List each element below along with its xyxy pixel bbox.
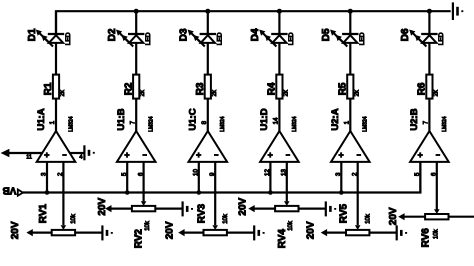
pin 6 label — [137, 172, 144, 176]
wire + input pin 3 of U2:A — [340, 162, 342, 193]
svg-text:3: 3 — [41, 172, 48, 176]
label U1:A — [36, 108, 47, 130]
pin 4 label — [79, 155, 82, 161]
power terminal 20V arrow for RV6 — [398, 213, 404, 220]
wire 20V terminal to RV2 — [111, 208, 132, 210]
node bottom bus junction pin 12 — [268, 190, 273, 195]
svg-text:1: 1 — [49, 120, 56, 124]
label 2k value of R3 — [212, 89, 218, 96]
label D4 — [250, 28, 261, 41]
svg-text:9: 9 — [209, 172, 216, 176]
node top bus junction col 3 — [205, 9, 210, 14]
pin 3 label — [41, 172, 48, 176]
battery at U1:A pin 4 — [84, 145, 94, 160]
label 2k value of R5 — [354, 89, 360, 96]
wire 20V terminal to RV4 — [254, 208, 275, 210]
svg-text:LM324: LM324 — [149, 116, 155, 132]
wire D4 to R4 — [278, 43, 280, 75]
label LM324 value of U1:B — [149, 116, 155, 132]
wire RV5 to battery — [369, 232, 396, 234]
wire U1:A V+ pin 4 — [70, 152, 84, 154]
label 2k value of R1 — [60, 89, 66, 96]
node bottom bus junction pin 5 — [125, 190, 130, 195]
label LED value of D2 — [145, 32, 152, 45]
svg-text:LED: LED — [145, 32, 152, 45]
svg-text:13: 13 — [281, 169, 288, 176]
label R1 — [43, 82, 54, 95]
svg-text:LED: LED — [359, 32, 366, 45]
LED D1 — [36, 30, 64, 47]
node bottom bus junction pin 3 — [339, 190, 344, 195]
wire RV3 to battery — [227, 232, 254, 234]
wire R4 to U1:D output — [278, 99, 280, 131]
svg-text:LED: LED — [438, 32, 445, 45]
svg-text:20V: 20V — [237, 197, 248, 215]
label LED value of D5 — [359, 32, 366, 45]
battery at RV3 — [254, 225, 264, 240]
input terminal BV — [2, 185, 23, 196]
label 20V for RV3 — [164, 221, 175, 239]
svg-text:U1:D: U1:D — [259, 108, 270, 130]
power arrow terminal at pin 11 — [1, 149, 10, 158]
label LM324 value of U1:C — [220, 116, 226, 132]
battery BT1 top right — [453, 2, 463, 20]
svg-text:RV1: RV1 — [38, 203, 49, 223]
label D6 — [400, 28, 411, 41]
pin 6 label — [431, 172, 438, 176]
label 10k value of RV4 — [288, 220, 294, 231]
svg-text:10: 10 — [192, 169, 199, 176]
node top bus junction col 6 — [427, 9, 432, 14]
label 10k value of RV1 — [71, 213, 77, 224]
label 10k value of RV2 — [145, 220, 151, 231]
pin 1 output of U2:A — [344, 120, 351, 124]
svg-text:20V: 20V — [10, 221, 21, 239]
resistor R6 2k — [426, 75, 432, 99]
pin 7 output of U1:B — [129, 120, 136, 124]
battery at RV1 — [102, 225, 112, 240]
label U1:C — [188, 108, 199, 130]
wire + input pin 5 of U1:B — [126, 162, 128, 193]
svg-text:R6: R6 — [417, 82, 428, 95]
battery at RV4 — [326, 201, 336, 216]
wire R1 to U1:A output — [55, 99, 57, 131]
label 10k value of RV5 — [365, 213, 371, 224]
label R2 — [123, 82, 134, 95]
svg-text:8: 8 — [201, 120, 208, 124]
label RV1 — [38, 203, 49, 223]
wire R6 to U2:B output — [428, 99, 430, 131]
svg-text:R2: R2 — [123, 82, 134, 95]
svg-text:6: 6 — [431, 172, 438, 176]
label 20V for RV4 — [237, 197, 248, 215]
svg-text:2: 2 — [57, 172, 64, 176]
wire bus to D5 — [349, 11, 351, 34]
wire bus to D4 — [278, 11, 280, 34]
svg-text:U2:B: U2:B — [409, 108, 420, 130]
potentiometer RV4 10k — [275, 201, 298, 211]
wire + input pin 3 of U1:A — [46, 162, 48, 193]
svg-text:10k: 10k — [433, 228, 439, 239]
label LM324 value of U1:A — [68, 116, 74, 132]
LED D4 — [259, 30, 287, 47]
node bottom bus junction pin 10 — [197, 190, 202, 195]
LED D3 — [188, 30, 216, 47]
wire top supply bus — [56, 11, 451, 33]
pin 1 output of U1:A — [49, 120, 56, 124]
node bottom bus junction pin 3 — [45, 190, 50, 195]
wire 20V terminal to RV5 — [326, 232, 346, 234]
wire U1:A V- pin 11 — [9, 152, 42, 154]
svg-text:2k: 2k — [433, 89, 439, 96]
LED D2 — [116, 30, 144, 47]
node top bus junction col 5 — [348, 9, 353, 14]
svg-text:3: 3 — [335, 172, 342, 176]
label 20V for RV1 — [10, 221, 21, 239]
pin 10 label — [192, 169, 199, 176]
svg-text:10k: 10k — [145, 220, 151, 231]
label LED value of D3 — [217, 32, 224, 45]
resistor R2 2k — [133, 75, 139, 99]
wire R3 to U1:C output — [207, 99, 209, 131]
svg-text:LED: LED — [217, 32, 224, 45]
label D1 — [27, 28, 38, 41]
label R6 — [417, 82, 428, 95]
svg-text:D1: D1 — [27, 28, 38, 41]
resistor R3 2k — [205, 75, 211, 99]
wire D5 to R5 — [349, 43, 351, 75]
svg-text:4: 4 — [79, 155, 82, 161]
svg-text:LED: LED — [65, 32, 72, 45]
potentiometer RV1 10k — [52, 225, 75, 235]
wire RV4 to battery — [299, 208, 326, 210]
label U1:B — [116, 108, 127, 130]
wire + input pin 10 of U1:C — [198, 162, 200, 193]
svg-text:1: 1 — [344, 120, 351, 124]
node top bus junction col 2 — [134, 9, 139, 14]
label 2k value of R4 — [283, 89, 289, 96]
svg-text:VB: VB — [2, 185, 16, 196]
pin 11 label — [26, 155, 32, 161]
label LED value of D6 — [438, 32, 445, 45]
svg-text:R1: R1 — [43, 82, 54, 95]
battery at RV2 — [183, 201, 193, 216]
label LM324 value of U1:D — [292, 116, 298, 132]
pin 12 label — [264, 169, 271, 176]
pin 8 output of U1:C — [201, 120, 208, 124]
pin 3 label — [335, 172, 342, 176]
label 2k value of R2 — [140, 89, 146, 96]
wire + input pin 12 of U1:D — [269, 162, 271, 193]
wire 20V terminal to RV3 — [184, 232, 204, 234]
label RV3 — [197, 203, 208, 223]
svg-text:D2: D2 — [107, 28, 118, 41]
op-amp U1:B LM324 — [117, 131, 156, 162]
label RV6 — [421, 228, 432, 248]
pin 2 label — [352, 172, 359, 176]
label RV4 — [277, 229, 288, 249]
pin 7 output of U2:B — [423, 120, 430, 124]
label RV2 — [134, 229, 145, 249]
svg-text:10k: 10k — [223, 213, 229, 224]
label 20V for RV6 — [388, 207, 399, 225]
label R3 — [195, 82, 206, 95]
label D5 — [321, 28, 332, 41]
svg-text:6: 6 — [137, 172, 144, 176]
LED D5 — [330, 30, 358, 47]
pin 5 label — [121, 172, 128, 176]
wire RV1 to battery — [75, 232, 102, 234]
svg-text:7: 7 — [129, 120, 136, 124]
label D2 — [107, 28, 118, 41]
svg-text:D3: D3 — [179, 28, 190, 41]
svg-text:U1:C: U1:C — [188, 108, 199, 130]
node top bus junction col 4 — [277, 9, 282, 14]
pin 9 label — [209, 172, 216, 176]
wire bus to D1 — [55, 11, 57, 34]
svg-text:RV2: RV2 — [134, 229, 145, 249]
label LED value of D4 — [288, 32, 295, 45]
svg-text:R3: R3 — [195, 82, 206, 95]
op-amp U1:C LM324 — [189, 131, 228, 162]
op-amp U1:A LM324 — [37, 131, 76, 162]
pin 2 label — [57, 172, 64, 176]
label D3 — [179, 28, 190, 41]
potentiometer RV5 10k — [346, 225, 369, 235]
label LED value of D1 — [65, 32, 72, 45]
wire D1 to R1 — [55, 43, 57, 75]
power terminal 20V arrow for RV2 — [105, 205, 111, 212]
wire - input pin 2 of U2:A to RV5 wiper — [357, 162, 359, 225]
wire bus to D3 — [207, 11, 209, 34]
power terminal 20V arrow for RV3 — [178, 229, 184, 236]
pin 13 label — [281, 169, 288, 176]
resistor R4 2k — [276, 75, 282, 99]
svg-text:2k: 2k — [283, 89, 289, 96]
svg-text:D4: D4 — [250, 28, 261, 41]
svg-text:10k: 10k — [365, 213, 371, 224]
svg-text:5: 5 — [121, 172, 128, 176]
label LM324 value of U2:B — [442, 116, 448, 132]
power terminal 20V arrow for RV1 — [26, 229, 32, 236]
potentiometer RV6 10k — [425, 209, 448, 219]
svg-text:20V: 20V — [164, 221, 175, 239]
pin 14 output of U1:D — [273, 117, 280, 124]
wire - input pin 6 of U1:B to RV2 wiper — [143, 162, 145, 202]
label 20V for RV2 — [97, 197, 108, 215]
power terminal 20V arrow for RV4 — [248, 205, 254, 212]
wire RV2 to battery — [155, 208, 182, 210]
wire 20V terminal to RV1 — [32, 232, 52, 234]
svg-text:U1:B: U1:B — [116, 108, 127, 130]
svg-text:2k: 2k — [60, 89, 66, 96]
pin 5 label — [414, 172, 421, 176]
wire + input pin 5 of U2:B — [419, 162, 421, 193]
wire - input pin 6 of U2:B to RV6 wiper — [436, 162, 438, 210]
wire - input pin 2 of U1:A to RV1 wiper — [62, 162, 64, 225]
label U2:B — [409, 108, 420, 130]
svg-text:20V: 20V — [388, 207, 399, 225]
svg-text:RV5: RV5 — [339, 203, 350, 223]
label R5 — [338, 82, 349, 95]
LED D6 — [409, 30, 437, 47]
svg-text:20V: 20V — [306, 221, 317, 239]
potentiometer RV2 10k — [132, 201, 155, 211]
svg-text:D6: D6 — [400, 28, 411, 41]
svg-text:2k: 2k — [140, 89, 146, 96]
battery at RV5 — [397, 225, 407, 240]
label 2k value of R6 — [433, 89, 439, 96]
svg-text:2k: 2k — [354, 89, 360, 96]
label 10k value of RV3 — [223, 213, 229, 224]
svg-text:12: 12 — [264, 169, 271, 176]
svg-text:10k: 10k — [71, 213, 77, 224]
svg-text:LM324: LM324 — [220, 116, 226, 132]
label U2:A — [330, 108, 341, 130]
label 10k value of RV6 — [433, 228, 439, 239]
svg-text:U1:A: U1:A — [36, 108, 47, 130]
wire RV6 right terminal to edge — [449, 216, 474, 218]
wire 20V terminal to RV6 — [404, 216, 425, 218]
svg-text:14: 14 — [273, 117, 280, 124]
resistor R5 2k — [347, 75, 353, 99]
svg-text:R5: R5 — [338, 82, 349, 95]
svg-text:11: 11 — [26, 155, 32, 161]
svg-text:2k: 2k — [212, 89, 218, 96]
wire R5 to U2:A output — [349, 99, 351, 131]
svg-text:20V: 20V — [97, 197, 108, 215]
svg-text:RV4: RV4 — [277, 229, 288, 249]
svg-text:U2:A: U2:A — [330, 108, 341, 130]
resistor R1 2k — [53, 75, 59, 99]
wire D6 to R6 — [428, 43, 430, 75]
svg-text:R4: R4 — [267, 82, 278, 95]
svg-text:10k: 10k — [288, 220, 294, 231]
svg-text:RV3: RV3 — [197, 203, 208, 223]
potentiometer RV3 10k — [204, 225, 227, 235]
wire D2 to R2 — [135, 43, 137, 75]
label RV5 — [339, 203, 350, 223]
svg-text:LED: LED — [288, 32, 295, 45]
label 20V for RV5 — [306, 221, 317, 239]
wire bus to D2 — [135, 11, 137, 34]
svg-text:D5: D5 — [321, 28, 332, 41]
wire - input pin 9 of U1:C to RV3 wiper — [214, 162, 216, 225]
wire R2 to U1:B output — [135, 99, 137, 131]
wire bus to D6 — [428, 11, 430, 34]
svg-text:7: 7 — [423, 120, 430, 124]
wire - input pin 13 of U1:D to RV4 wiper — [286, 162, 288, 202]
svg-text:LM324: LM324 — [363, 116, 369, 132]
op-amp U1:D LM324 — [260, 131, 299, 162]
op-amp U2:A LM324 — [331, 131, 370, 162]
op-amp U2:B LM324 — [410, 131, 449, 162]
wire D3 to R3 — [207, 43, 209, 75]
svg-text:LM324: LM324 — [292, 116, 298, 132]
svg-text:LM324: LM324 — [442, 116, 448, 132]
label R4 — [267, 82, 278, 95]
label U1:D — [259, 108, 270, 130]
svg-text:RV6: RV6 — [421, 228, 432, 248]
svg-text:2: 2 — [352, 172, 359, 176]
label LM324 value of U2:A — [363, 116, 369, 132]
svg-text:LM324: LM324 — [68, 116, 74, 132]
wire bottom bus (non-inverting inputs) — [23, 162, 420, 193]
power terminal 20V arrow for RV5 — [321, 229, 327, 236]
